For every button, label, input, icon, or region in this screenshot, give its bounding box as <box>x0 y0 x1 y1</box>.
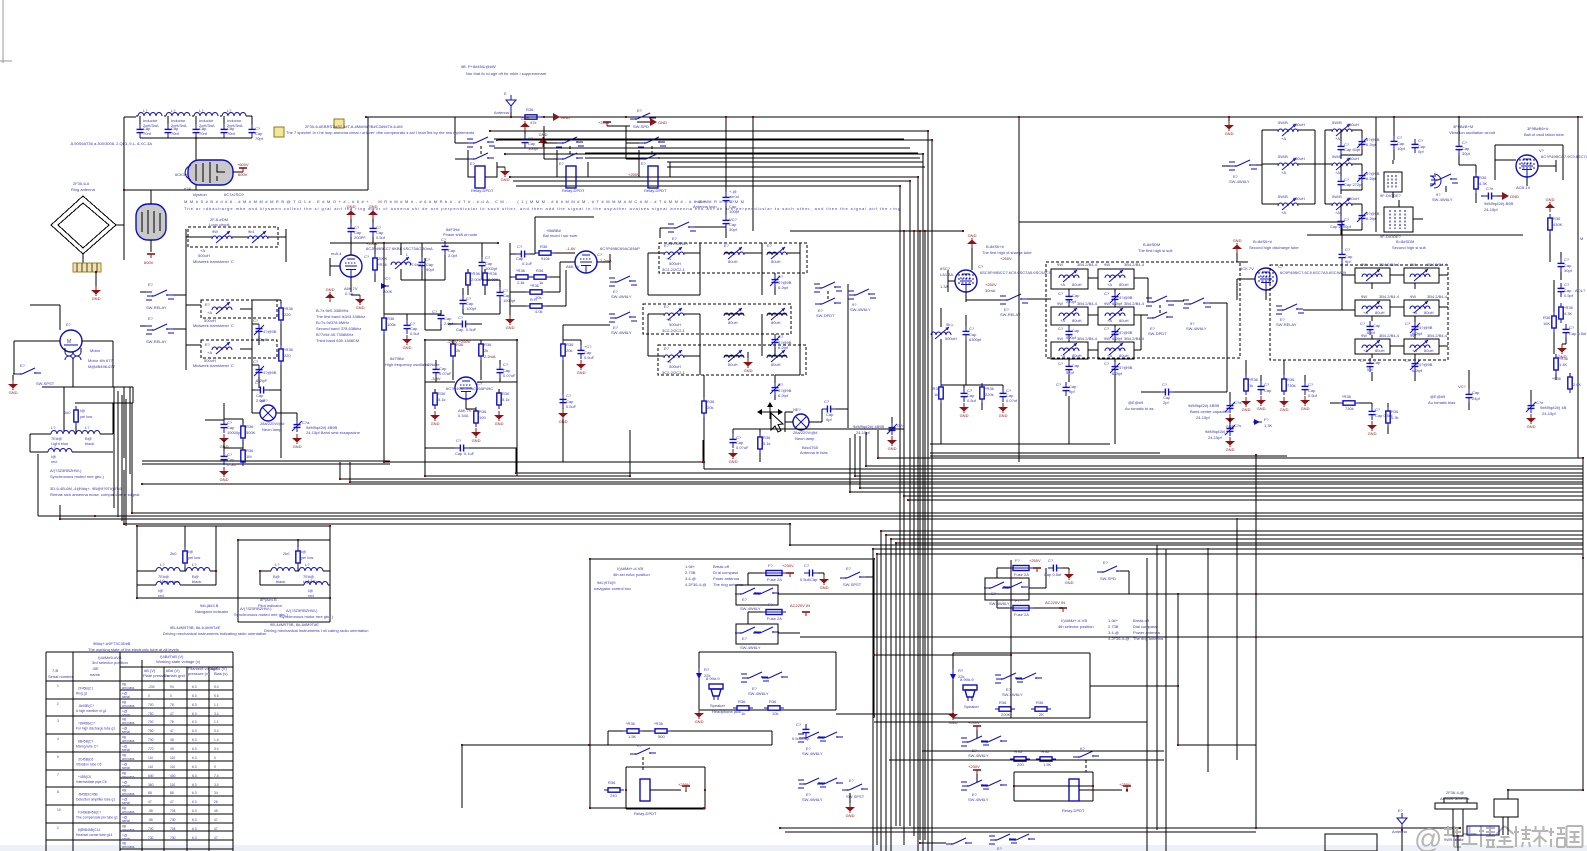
svg-text:Antenna: Antenna <box>494 110 510 115</box>
switch hf1 right <box>1183 298 1227 331</box>
svg-text:serial: serial <box>122 766 130 770</box>
svg-text:SW-4W6LY: SW-4W6LY <box>968 797 989 802</box>
svg-text:The first band is343.338khz: The first band is343.338khz <box>316 314 365 319</box>
svg-text:C?: C? <box>1360 358 1366 363</box>
svg-text:5W/B: 5W/B <box>1278 194 1288 199</box>
svg-text:2pf: 2pf <box>1163 400 1169 405</box>
svg-text:*R36: *R36 <box>1552 376 1562 381</box>
svg-text:R36: R36 <box>246 424 254 429</box>
svg-text:700: 700 <box>148 720 154 724</box>
svg-text:8: 8 <box>57 790 59 794</box>
svg-text:3C2-2/2C2-1: 3C2-2/2C2-1 <box>662 267 686 272</box>
svg-text:R36: R36 <box>707 399 715 404</box>
svg-text:GND: GND <box>1510 194 1519 199</box>
svg-text:730: 730 <box>170 836 176 840</box>
oscillator box <box>425 340 517 476</box>
svg-text:4?@9B: 4?@9B <box>1419 362 1433 367</box>
transformer box 1 <box>1380 172 1402 198</box>
svg-text:itB. P+8#45iU@#W: itB. P+8#45iU@#W <box>461 64 496 69</box>
svg-text:4.3K: 4.3K <box>1564 311 1573 316</box>
svg-text:0.5uf: 0.5uf <box>227 462 237 467</box>
svg-text:C?: C? <box>1405 358 1411 363</box>
svg-text:C?: C? <box>1564 282 1570 287</box>
relay group G3 switch <box>638 137 666 166</box>
svg-text:8#79B#: 8#79B# <box>390 356 405 361</box>
ground topright <box>1224 117 1234 136</box>
capacitor 100pF mid <box>460 295 477 311</box>
svg-text:C?s: C?s <box>1234 423 1241 428</box>
svg-text:C?: C? <box>1058 326 1064 331</box>
switch top right mid <box>630 108 656 129</box>
wire tr col2 <box>1325 130 1362 235</box>
resistor fr 16K <box>1543 312 1556 332</box>
svg-text:Motor 4th 677: Motor 4th 677 <box>88 358 113 363</box>
capacitor gnd mid <box>402 320 420 350</box>
svg-text:70nf: 70nf <box>171 131 180 136</box>
svg-text:Fuse 2A: Fuse 2A <box>767 616 782 621</box>
svg-text:SW-4W6LY: SW-4W6LY <box>1186 326 1207 331</box>
svg-text:C?: C? <box>1564 257 1570 262</box>
svg-text:SW-RELAY: SW-RELAY <box>1000 312 1021 317</box>
svg-text:B=8#SDM: B=8#SDM <box>1396 239 1414 244</box>
svg-text:9B#q+-#9FT3C3D#B: 9B#q+-#9FT3C3D#B <box>93 641 131 646</box>
svg-text:1k: 1k <box>1249 383 1253 388</box>
svg-text:3.4-@: 3.4-@ <box>685 576 696 581</box>
pot hf2 c1r2 <box>1355 333 1400 354</box>
wire control box frame <box>590 559 874 808</box>
svg-text:R36: R36 <box>536 268 544 273</box>
wire hbus 12 <box>908 499 1583 501</box>
capacitor C3 <box>193 124 208 138</box>
capacitor tr 60pF <box>1338 141 1362 155</box>
resistor 1k spk <box>733 699 753 716</box>
svg-text:*R36: *R36 <box>1559 356 1569 361</box>
relay group G1 switch <box>467 137 495 166</box>
svg-text:5W/B: 5W/B <box>1332 120 1342 125</box>
svg-text:LA1.3A: LA1.3A <box>940 272 953 277</box>
wire horizontal y231 <box>790 230 963 232</box>
relay 4way right f <box>984 568 1046 606</box>
wire hbus 9 <box>860 436 1583 488</box>
svg-text:C?: C? <box>597 252 603 257</box>
svg-text:Motor: Motor <box>90 348 101 353</box>
svg-text:@E@#9: @E@#9 <box>1430 394 1446 399</box>
svg-text:3: 3 <box>57 719 59 723</box>
pot hf1 left <box>931 308 957 385</box>
svg-text:3F9B#B+M: 3F9B#B+M <box>1453 124 1473 129</box>
svg-text:500uH: 500uH <box>669 364 681 369</box>
resistor 5.1k bias <box>758 429 771 462</box>
svg-text:pressure (v): pressure (v) <box>188 671 210 676</box>
svg-text:Au tomatic bias: Au tomatic bias <box>1428 400 1455 405</box>
svg-text:am pass: am pass <box>122 721 135 725</box>
svg-text:6.3: 6.3 <box>192 800 197 804</box>
wire tube V3 <box>330 243 351 292</box>
diamond loop antenna inner <box>58 203 109 248</box>
svg-text:Cap 0.5uf: Cap 0.5uf <box>1569 331 1587 336</box>
svg-text:6.2tpF: 6.2tpF <box>256 337 268 342</box>
svg-text:26: 26 <box>214 800 218 804</box>
svg-text:C?: C? <box>1418 138 1424 143</box>
svg-text:C?: C? <box>1405 321 1411 326</box>
wire hbus left triple <box>142 461 390 464</box>
svg-text:*R36: *R36 <box>471 271 481 276</box>
svg-text:B=7x.9#378.6MHz: B=7x.9#378.6MHz <box>316 320 349 325</box>
fuse right F4 <box>1009 598 1033 617</box>
svg-text:*R36: *R36 <box>626 721 636 726</box>
svg-text:+A: +A <box>1281 210 1286 215</box>
switch stack b <box>609 312 637 335</box>
svg-text:C?: C? <box>253 318 259 323</box>
switch SW-DPDT right <box>814 282 842 318</box>
svg-text:+A: +A <box>1335 170 1340 175</box>
capacitor C 2.0pF phase <box>441 237 458 258</box>
svg-text:80uH: 80uH <box>1072 353 1082 358</box>
svg-text:80uH: 80uH <box>771 320 781 325</box>
svg-text:R36: R36 <box>769 699 777 704</box>
wire hbus 14 <box>38 454 1583 516</box>
svg-text:6.2tpf: 6.2tpf <box>1112 336 1123 341</box>
svg-text:6CJP49BCC7.6KBK 6SC73AC 30mA: 6CJP49BCC7.6KBK 6SC73AC 30mA <box>366 246 433 251</box>
svg-text:name: name <box>90 672 101 677</box>
svg-text:3B4.2/B4-4: 3B4.2/B4-4 <box>1124 301 1145 306</box>
svg-text:500uH: 500uH <box>669 322 681 327</box>
wire hf1 cols <box>1046 278 1148 444</box>
yellow marker 2 <box>334 119 344 128</box>
svg-text:+A: +A <box>1363 348 1368 353</box>
svg-text:The working state of the elect: The working state of the electronic tube… <box>88 647 179 652</box>
resistor R2k a <box>451 340 464 360</box>
wire hf2 lower nets <box>1230 360 1531 434</box>
wire antenna to tube <box>83 190 124 264</box>
resistor 1k <box>530 268 550 285</box>
capacitor far right 0.5pf <box>1558 282 1587 298</box>
svg-text:0: 0 <box>214 756 216 760</box>
svg-text:110: 110 <box>148 756 153 760</box>
svg-text:220: 220 <box>284 312 291 317</box>
svg-text:+A: +A <box>1363 310 1368 315</box>
svg-text:6.2tpf: 6.2tpf <box>1112 371 1123 376</box>
svg-text:L?: L? <box>160 562 165 567</box>
wire vertical bus b <box>913 231 915 836</box>
svg-text:C?: C? <box>1360 321 1366 326</box>
svg-text:3B4.2/B4-4: 3B4.2/B4-4 <box>1427 262 1448 267</box>
svg-text:B-8#S6+#: B-8#S6+# <box>986 244 1005 249</box>
svg-text:0: 0 <box>214 765 216 769</box>
svg-text:Cap: Cap <box>1472 390 1480 395</box>
trimmer t2 <box>253 359 277 383</box>
svg-text:500uH: 500uH <box>198 253 210 258</box>
svg-text:Third band 635.1388CM: Third band 635.1388CM <box>316 338 359 343</box>
wire ladder left down <box>124 117 196 190</box>
dashed bank row2 <box>643 304 791 334</box>
svg-text:E?: E? <box>66 322 72 327</box>
dashed loop circuit box <box>188 227 278 247</box>
svg-text:L?: L? <box>308 578 313 583</box>
svg-text:+A: +A <box>1412 348 1417 353</box>
svg-text:E?: E? <box>742 597 748 602</box>
trimmer band set right <box>887 417 905 451</box>
capacitor aerial C30 <box>723 215 738 232</box>
svg-text:*R36: *R36 <box>654 721 664 726</box>
svg-text:6.2tpf: 6.2tpf <box>778 345 789 350</box>
power +230V fuse <box>782 563 794 577</box>
svg-text:SW-4W6LY: SW-4W6LY <box>1432 197 1453 202</box>
switch SPST bot <box>842 778 868 818</box>
svg-text:7.4: 7.4 <box>214 774 219 778</box>
svg-text:nnA.4: nnA.4 <box>331 251 342 256</box>
svg-text:80uH: 80uH <box>728 320 738 325</box>
svg-text:Curtain grid: Curtain grid <box>164 673 185 678</box>
wire hbus 13 <box>132 403 1583 513</box>
inductor A black <box>186 562 216 584</box>
wire hbus 8 <box>142 483 1583 485</box>
svg-text:6CK.7V: 6CK.7V <box>1240 266 1254 271</box>
svg-text:+A: +A <box>1335 136 1340 141</box>
svg-text:AOL?: AOL? <box>1575 288 1586 293</box>
svg-text:0.5uf: 0.5uf <box>1308 393 1318 398</box>
svg-text:R36: R36 <box>1036 700 1044 705</box>
svg-text:24pf: 24pf <box>1472 396 1481 401</box>
klystron tube V1 <box>175 160 233 185</box>
pot bank r1c3 <box>767 243 787 264</box>
svg-text:8)B9B45B(C14: 8)B9B45B(C14 <box>78 828 100 832</box>
svg-text:3.4: 3.4 <box>214 729 219 733</box>
svg-text:L?: L? <box>227 108 232 113</box>
resistor tr 4.3K <box>1474 173 1488 193</box>
wire tube V2 bottom <box>150 240 152 252</box>
svg-text:90pf: 90pf <box>426 267 435 272</box>
svg-text:10pf: 10pf <box>1397 146 1406 151</box>
svg-text:704: 704 <box>170 809 176 813</box>
svg-text:6.3: 6.3 <box>192 836 197 840</box>
svg-text:am pass: am pass <box>122 845 135 849</box>
svg-text:2F30-6-#EBRS7i#37 3#T-6-#M#: 2F30-6-#EBRS7i#37 3#T-6-#M#M#RB#C3#9#T#-… <box>305 124 403 129</box>
svg-text:9b,L: 9b,L <box>946 322 955 327</box>
svg-text:SW-4W6LY: SW-4W6LY <box>802 797 823 802</box>
svg-text:6.3: 6.3 <box>192 765 197 769</box>
svg-text:C?: C? <box>1162 382 1168 387</box>
wire tr frame <box>1307 117 1523 235</box>
svg-text:C?: C? <box>1375 407 1381 412</box>
svg-text:C?a: C?a <box>1234 400 1242 405</box>
svg-text:I/)4#M#+-#-VB: I/)4#M#+-#-VB <box>1061 618 1087 623</box>
svg-text:*R36: *R36 <box>284 347 294 352</box>
svg-text:SW-4W6LY: SW-4W6LY <box>1229 179 1250 184</box>
wire balanced nets <box>510 243 610 315</box>
svg-text:Cap: Cap <box>455 451 463 456</box>
wire hbus staircase 18 <box>886 535 1583 851</box>
svg-text:Vibration tube C6: Vibration tube C6 <box>76 763 102 767</box>
resistor 200K spk2 <box>995 700 1015 717</box>
svg-text:4: 4 <box>57 737 59 741</box>
svg-text:R36: R36 <box>540 244 548 249</box>
pot hf1 c2r3 <box>1098 336 1145 359</box>
pot tr r3 <box>1278 194 1305 215</box>
svg-text:1.4: 1.4 <box>214 738 219 742</box>
svg-text:SW-RELAY: SW-RELAY <box>1276 322 1297 327</box>
svg-text:0.5uF: 0.5uF <box>584 355 595 360</box>
svg-text:180uH: 180uH <box>1293 122 1305 127</box>
svg-text:770: 770 <box>148 747 154 751</box>
wire hbus 6 <box>340 462 1583 479</box>
svg-text:1.1: 1.1 <box>214 703 219 707</box>
table frame <box>46 652 233 851</box>
svg-text:Relay-DPDT: Relay-DPDT <box>471 188 494 193</box>
pot fr 2.0K <box>1552 373 1582 393</box>
capacitor 6300pF <box>963 315 983 385</box>
svg-text:Relay-DPDT: Relay-DPDT <box>562 188 585 193</box>
svg-text:+250V: +250V <box>985 282 997 287</box>
inductor L2 <box>166 108 190 128</box>
wire nested corner 2 <box>497 140 932 851</box>
resistor hf1 220k <box>980 383 995 403</box>
wire tr left col <box>1262 130 1325 204</box>
svg-text:80uH: 80uH <box>1119 318 1129 323</box>
svg-text:3B4.2/B4-4: 3B4.2/B4-4 <box>1379 333 1400 338</box>
svg-text:Vibration oscillation circuit: Vibration oscillation circuit <box>1449 130 1496 135</box>
svg-text:9#M9q#2#)-B9B: 9#M9q#2#)-B9B <box>1484 201 1513 206</box>
svg-text:C?: C? <box>255 380 261 385</box>
svg-text:30pf: 30pf <box>729 227 738 232</box>
capacitor hf2 bias gnd <box>1367 406 1393 436</box>
svg-text:*R36: *R36 <box>931 386 941 391</box>
svg-text:9W: 9W <box>1057 301 1063 306</box>
svg-text:4.2F36-4-@: 4.2F36-4-@ <box>685 582 706 587</box>
gnd arrow right 3 <box>637 118 667 126</box>
svg-text:Ball of oscil lation tube: Ball of oscil lation tube <box>1524 132 1565 137</box>
svg-text:+250V: +250V <box>1029 558 1041 563</box>
svg-text:730: 730 <box>170 818 176 822</box>
pot tr r1 <box>1278 120 1305 141</box>
svg-text:E?: E? <box>991 591 997 596</box>
capacitor 2.0pf low <box>432 309 454 326</box>
svg-text:6.3: 6.3 <box>192 774 197 778</box>
svg-text:24-15pf Band sest ecsapacin: 24-15pf Band sest ecsapacine <box>306 430 361 435</box>
svg-text:0.5uf/Cap: 0.5uf/Cap <box>792 736 810 741</box>
capacitor C 200PF <box>348 219 367 240</box>
relay G2 coil <box>557 150 588 193</box>
svg-text:+250V: +250V <box>1000 256 1012 261</box>
svg-text:9#M9q#2#) 4B: 9#M9q#2#) 4B <box>1540 405 1567 410</box>
svg-text:9B-4#M9T9B, 8#-6#M9T#E: 9B-4#M9T9B, 8#-6#M9T#E <box>270 622 319 627</box>
svg-text:2.0pf: 2.0pf <box>448 253 458 258</box>
svg-text:A/)?3Z5RBZHW-): A/)?3Z5RBZHW-) <box>286 608 318 613</box>
svg-text:500: 500 <box>658 734 665 739</box>
relay 4way ctl 1 <box>735 573 790 611</box>
svg-text:9#L)8#4.B: 9#L)8#4.B <box>200 603 219 608</box>
pot bank r2c3 <box>767 308 787 325</box>
svg-text:3rd selector position: 3rd selector position <box>92 660 128 665</box>
svg-text:6.3: 6.3 <box>192 827 197 831</box>
wire hbus 7 <box>350 462 1583 482</box>
gnd 2 small <box>520 116 530 131</box>
capacitor hf2 c1r2 <box>1360 358 1381 372</box>
svg-text:E?: E? <box>637 108 643 113</box>
resistor R200 br <box>1010 749 1030 767</box>
gnd top pair a <box>346 204 356 219</box>
svg-text:NE?: NE? <box>260 398 269 403</box>
svg-text:24-15pf: 24-15pf <box>856 430 870 435</box>
svg-text:730k: 730k <box>1345 406 1354 411</box>
svg-text:black: black <box>85 441 94 446</box>
svg-text:3C45B(C6: 3C45B(C6 <box>78 758 94 762</box>
svg-text:SW-DPDT: SW-DPDT <box>816 313 835 318</box>
resistor 910k <box>535 244 555 261</box>
speaker SP1 <box>706 676 741 714</box>
diode arrow right 22k <box>950 668 964 680</box>
svg-text:R36: R36 <box>738 699 746 704</box>
svg-text:+A: +A <box>1107 318 1112 323</box>
svg-text:9pf: 9pf <box>826 417 832 422</box>
svg-text:SW-SPD: SW-SPD <box>1100 576 1116 581</box>
wire strip down <box>95 272 97 286</box>
wire right edge vertical top <box>1577 117 1579 458</box>
svg-text:R36: R36 <box>1543 315 1551 320</box>
svg-text:9W: 9W <box>1361 333 1367 338</box>
svg-text:SW-RELAY: SW-RELAY <box>146 339 167 344</box>
svg-text:+C?: +C? <box>584 344 592 349</box>
svg-text:0pf: 0pf <box>1367 367 1373 372</box>
svg-text:500uH: 500uH <box>669 261 681 266</box>
svg-text:yel low: yel low <box>80 414 92 419</box>
svg-text:750: 750 <box>148 729 154 733</box>
svg-text:I@: I@ <box>301 549 306 554</box>
switch SPST ctl <box>840 566 874 587</box>
svg-text:A6K.7V: A6K.7V <box>566 264 580 269</box>
wire hbus 2 <box>384 440 1583 469</box>
switch stack a <box>609 276 637 299</box>
ground osc a <box>430 411 440 426</box>
svg-text:180uH: 180uH <box>1293 196 1305 201</box>
svg-text:L?: L? <box>171 108 176 113</box>
svg-text:Midweek tramshmer 'C': Midweek tramshmer 'C' <box>193 323 235 328</box>
antenna br <box>1392 808 1408 851</box>
resistor 10k spk <box>764 699 784 716</box>
svg-text:34: 34 <box>214 791 218 795</box>
capacitor hf2 b <box>1300 381 1318 411</box>
svg-text:9F-DIODE?: 9F-DIODE? <box>1380 193 1402 198</box>
svg-text:6.3: 6.3 <box>192 720 197 724</box>
pot hf1 c1r3 <box>1051 336 1098 359</box>
svg-text:Band center capacitor: Band center capacitor <box>1190 409 1230 414</box>
svg-text:0.1uF: 0.1uF <box>464 451 475 456</box>
svg-text:am pass: am pass <box>122 792 135 796</box>
tube V2 vertical <box>136 204 166 240</box>
capacitor C left gnd b <box>219 451 237 482</box>
svg-text:C?: C? <box>1058 361 1064 366</box>
svg-text:80uH: 80uH <box>1424 310 1434 315</box>
inductor A lightblue <box>137 562 186 584</box>
svg-text:Driving mechanical instrumen: Driving mechanical instruments I nll cat… <box>264 628 369 633</box>
pot bank r3c3 <box>767 350 787 367</box>
svg-text:The ring antenna: The ring antenna <box>1133 636 1164 641</box>
svg-text:5.1k: 5.1k <box>438 397 446 402</box>
svg-text:47: 47 <box>170 800 174 804</box>
svg-text:80uH: 80uH <box>1119 282 1129 287</box>
svg-text:+A: +A <box>1060 282 1065 287</box>
svg-text:Second band 378.638khz: Second band 378.638khz <box>316 326 361 331</box>
svg-text:serial: serial <box>122 730 130 734</box>
svg-text:*R36: *R36 <box>378 262 388 267</box>
ground R100 <box>471 428 481 443</box>
svg-text:6.3: 6.3 <box>192 685 197 689</box>
terminal strip striped <box>73 263 101 272</box>
svg-text:70nf: 70nf <box>143 131 152 136</box>
svg-text:E?: E? <box>1398 808 1404 813</box>
svg-text:-240V +250V: -240V +250V <box>447 339 471 344</box>
trimmer gnd hf1 right <box>1225 392 1242 429</box>
